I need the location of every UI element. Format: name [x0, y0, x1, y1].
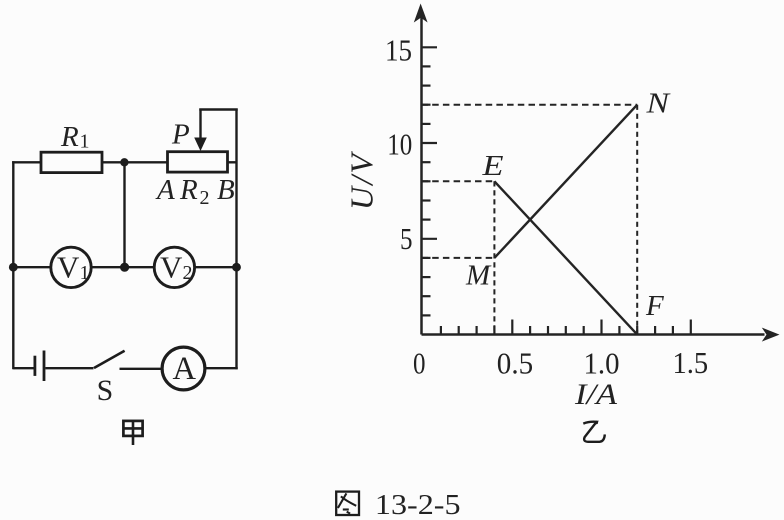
wire switch to ammeter [120, 368, 162, 370]
wire right vertical [235, 109, 237, 370]
wire ammeter to right vertical [206, 367, 238, 369]
svg-text:0: 0 [413, 345, 426, 380]
svg-text:V: V [160, 250, 183, 285]
wire left vertical [12, 161, 14, 369]
voltmeter V2 [154, 247, 194, 287]
svg-text:1: 1 [80, 131, 90, 153]
wire battery to switch [45, 367, 93, 369]
label R1 [60, 121, 90, 153]
node V row middle [120, 263, 129, 272]
wire V1 to V2 [92, 266, 154, 268]
svg-text:P: P [171, 119, 190, 151]
node V row left [9, 263, 18, 272]
svg-text:5: 5 [400, 221, 413, 256]
wire bottom left segment [13, 367, 35, 369]
svg-text:1.0: 1.0 [584, 346, 620, 381]
caption: character tu (figure) [336, 492, 359, 515]
wire R1 to junction [102, 161, 168, 163]
y-axis with arrow [414, 4, 428, 335]
potentiometer R2 body [168, 152, 228, 172]
svg-text:N: N [645, 88, 671, 120]
voltmeter V1 [51, 247, 91, 287]
dashed line I=0.4 [493, 181, 495, 334]
wire V row left segment [13, 266, 50, 268]
wire pot to right vertical [228, 161, 237, 163]
svg-text:15: 15 [385, 32, 412, 67]
wire top row left segment [12, 161, 41, 163]
svg-text:R: R [60, 121, 79, 153]
label A R2 B [155, 174, 235, 209]
svg-text:A: A [155, 174, 175, 206]
ammeter A [162, 347, 205, 390]
svg-text:1: 1 [80, 262, 90, 284]
dashed line I=1.2 [636, 105, 638, 335]
line M to N [494, 105, 637, 258]
svg-text:B: B [217, 174, 235, 206]
switch S [94, 351, 125, 368]
dashed line U=8 [422, 180, 495, 182]
dashed line U=12 [422, 104, 638, 106]
svg-text:A: A [173, 351, 197, 387]
x-axis with arrow [422, 328, 780, 342]
svg-text:10: 10 [387, 127, 412, 162]
svg-text:2: 2 [200, 187, 210, 209]
svg-text:F: F [645, 290, 664, 322]
svg-text:0.5: 0.5 [497, 346, 533, 381]
potentiometer wiper arrow [194, 109, 207, 152]
node junction top [120, 158, 128, 166]
svg-text:2: 2 [183, 262, 193, 284]
svg-text:S: S [97, 374, 114, 407]
svg-text:E: E [481, 150, 504, 182]
line E to F [494, 181, 637, 334]
svg-text:V: V [57, 250, 80, 285]
y-axis ticks [421, 47, 438, 315]
svg-text:I/A: I/A [574, 378, 618, 411]
node V row right [232, 263, 241, 272]
dashed line U=4 [422, 257, 495, 259]
battery [35, 351, 44, 382]
x-axis ticks [441, 320, 691, 335]
wire wiper to right side [199, 108, 237, 110]
svg-text:13-2-5: 13-2-5 [375, 489, 461, 520]
wire junction to V row [123, 162, 125, 267]
label yi (Chinese caption of graph) [583, 421, 605, 442]
resistor R1 [41, 152, 102, 172]
svg-text:R: R [179, 174, 198, 206]
svg-text:U/V: U/V [344, 151, 380, 210]
label jia (Chinese caption of circuit) [123, 421, 142, 445]
svg-text:1.5: 1.5 [673, 345, 709, 380]
wire V2 to right [195, 266, 237, 268]
svg-text:M: M [465, 260, 492, 292]
